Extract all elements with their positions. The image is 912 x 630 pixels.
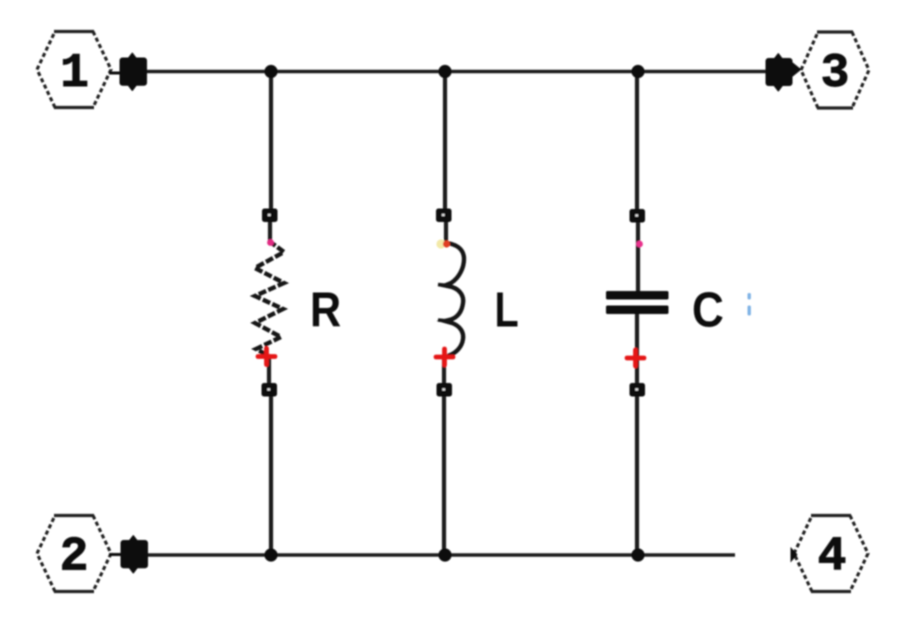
wire branch R top (269, 71, 273, 210)
junction top-R (264, 65, 277, 78)
wire branch L top (443, 71, 447, 210)
svg-text:C: C (692, 282, 724, 337)
junction bottom-C (631, 548, 644, 561)
svg-text:2: 2 (60, 531, 89, 585)
junction top-C (631, 65, 644, 78)
inductor L cusp tick 1 (438, 285, 449, 286)
svg-text:1: 1 (60, 47, 89, 101)
resistor R bottom terminal plus (258, 349, 275, 365)
inductor L (445, 243, 464, 356)
pin C-top (630, 209, 646, 223)
pin C-bottom (630, 383, 646, 397)
inductor L bottom terminal plus (436, 349, 453, 365)
port 2 hexagon (37, 516, 111, 592)
svg-text:3: 3 (821, 47, 850, 101)
wire branch C bottom (635, 313, 639, 384)
wire top rail (146, 70, 766, 74)
inductor L cusp tick 2 (438, 320, 449, 321)
svg-text:L: L (495, 282, 519, 337)
capacitor C bottom plate (606, 306, 669, 315)
junction bottom-R (264, 548, 277, 561)
port 4 arrowhead (791, 547, 798, 563)
port 3 hexagon (801, 32, 869, 108)
inductor L top terminal yellow halo (436, 239, 445, 248)
cursor mark blue dash lower (748, 306, 751, 316)
port 1 hexagon (37, 32, 111, 108)
resistor R (255, 241, 284, 356)
port 4 hexagon (794, 516, 868, 592)
inductor L top terminal dot (443, 240, 450, 247)
junction top-L (438, 65, 451, 78)
resistor R top terminal dot (267, 239, 274, 246)
pin R-bottom (262, 383, 278, 397)
pin L-bottom (437, 383, 453, 397)
capacitor C top terminal dot (636, 241, 643, 248)
junction bottom-L (438, 548, 451, 561)
svg-text:R: R (310, 282, 341, 337)
capacitor C bottom terminal plus (627, 350, 644, 366)
capacitor C top plate (606, 291, 669, 300)
wire branch L bottom (442, 356, 446, 384)
wire bottom rail (147, 553, 735, 557)
wire branch R bottom (267, 356, 271, 384)
pin R-top (262, 209, 278, 223)
cursor mark blue dash upper (748, 293, 751, 300)
port 1 connector blob (109, 53, 147, 90)
port 3 connector blob (766, 54, 800, 91)
pin L-top (436, 209, 452, 223)
port 2 connector blob (109, 536, 148, 573)
svg-text:4: 4 (818, 531, 847, 585)
wire branch C top (635, 71, 639, 210)
